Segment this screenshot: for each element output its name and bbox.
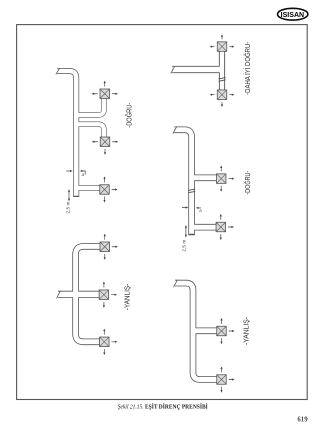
pipe network inner white (diagram 5) <box>175 283 217 379</box>
branch pipe to radiator R1 <box>76 98 104 115</box>
svg-text:a: a <box>82 172 85 177</box>
pipe break mark at inlet end (diagram 2) <box>171 66 175 73</box>
radiator valve R1 (diagram 4) <box>100 242 110 252</box>
svg-text:-DOĞRU-: -DOĞRU- <box>125 102 134 127</box>
svg-text:-YANLIŞ-: -YANLIŞ- <box>241 316 250 345</box>
pipe break mark at inlet end (diagram 1) <box>56 68 60 74</box>
flow arrows at R1 (diagram 1) <box>92 81 118 95</box>
length dimension arrow 2,5m (diagram 1) <box>68 189 70 201</box>
pipe break mark at inlet end (diagram 3) <box>173 126 177 133</box>
svg-text:2,5 m: 2,5 m <box>66 201 72 213</box>
supply inlet pipe through junction to R2 (diagram 4) <box>58 291 99 298</box>
pipe break mark at inlet end (diagram 4) <box>57 291 61 299</box>
radiator valve R1 (diagram 5) <box>217 326 227 336</box>
flow arrows at R1 (diagram 3) <box>220 165 234 191</box>
flow arrows at R2 (diagram 5) <box>220 366 234 392</box>
svg-text:619: 619 <box>297 416 308 423</box>
radiator valve R1 (diagram 2) <box>217 42 227 52</box>
svg-text:ISISAN: ISISAN <box>281 10 305 19</box>
flow arrows at R1 (diagram 2) <box>210 34 235 47</box>
supply main inner white (diagram 2) <box>172 67 223 73</box>
ISISAN logo <box>278 8 308 20</box>
riser left edge segments (diagram 2) <box>218 51 220 90</box>
svg-text:-DAHA İYİ DOĞRU-: -DAHA İYİ DOĞRU- <box>243 41 252 94</box>
radiator valve R2 (diagram 5) <box>217 375 227 385</box>
riser pipe between radiators (diagram 2) <box>219 51 225 90</box>
svg-text:a: a <box>199 208 202 213</box>
flow arrows at R1 (diagram 5) <box>220 318 234 344</box>
riser inner white (diagram 2) <box>220 51 225 90</box>
flow arrows at R3 (diagram 1) <box>103 176 117 202</box>
pipe union mark (diagram 2) <box>219 77 226 81</box>
page border frame <box>17 25 308 400</box>
flow arrows at R2 (diagram 2) <box>210 94 235 107</box>
flow arrows at R2 (diagram 1) <box>92 141 118 155</box>
branch pipe to radiator R1 <box>192 175 217 182</box>
length dimension arrow 2,5m (diagram 3) <box>185 225 187 237</box>
riser inner white (diagram 4) <box>76 246 101 341</box>
svg-text:2,5 m: 2,5 m <box>181 240 187 252</box>
pipe width dimension arrows (diagram 3) <box>182 206 201 209</box>
svg-text:-DOĞRU-: -DOĞRU- <box>243 170 252 194</box>
radiator valve R1 (diagram 1) <box>100 89 110 99</box>
pipe network inner white (diagram 3) <box>174 130 216 234</box>
inlet inner white (diagram 4) <box>58 292 99 298</box>
riser right edge through junction (diagram 2) <box>224 51 226 90</box>
radiator valve R1 (diagram 3) <box>216 174 226 184</box>
pipe network dark outline (diagram 5) <box>175 283 217 379</box>
supply main pipe (inlet + riser) <box>57 71 76 197</box>
radiator valve R2 (diagram 4) <box>99 290 109 300</box>
radiator valve R3 (diagram 1) <box>100 185 110 195</box>
flow arrows at R1 (diagram 4) <box>104 234 118 260</box>
branch pipe to radiator R1 <box>193 327 217 334</box>
flow arrows at R2 (diagram 4) <box>103 282 117 308</box>
supply main pipe horizontal (diagram 2) <box>172 66 223 73</box>
branch pipe to radiator R2 <box>192 224 217 231</box>
branch pipe to radiator R3 <box>76 185 100 190</box>
pipe network dark outline (diagram 3) <box>174 130 216 235</box>
supply main pipe (inlet + riser) <box>174 130 191 235</box>
supply main pipe (inlet + riser + run to R2) <box>175 283 217 379</box>
pipe width dimension arrows (diagram 1) <box>66 170 85 175</box>
svg-text:Şekil 21.15. EŞİT DİRENÇ PRENS: Şekil 21.15. EŞİT DİRENÇ PRENSİBİ <box>118 404 209 411</box>
flow arrows at R3 (diagram 4) <box>103 329 117 355</box>
pipe break mark at inlet end (diagram 5) <box>174 280 178 288</box>
flow arrows at R2 (diagram 3) <box>220 214 234 240</box>
riser pipe with bends to R1 and R3 (diagram 4) <box>76 246 101 341</box>
svg-text:-YANLIŞ-: -YANLIŞ- <box>122 283 131 310</box>
branch pipe to radiator R2 <box>76 124 104 137</box>
radiator valve R3 (diagram 4) <box>100 337 110 347</box>
pipe network inner white (diagram 1) <box>57 71 104 196</box>
radiator valve R2 (diagram 3) <box>216 222 226 232</box>
radiator valve R2 (diagram 2) <box>217 90 227 100</box>
pipe union mark (diagram 3) <box>188 189 195 193</box>
radiator valve R2 (diagram 1) <box>100 137 110 147</box>
pipe network dark outline (diagram 1) <box>57 71 104 197</box>
